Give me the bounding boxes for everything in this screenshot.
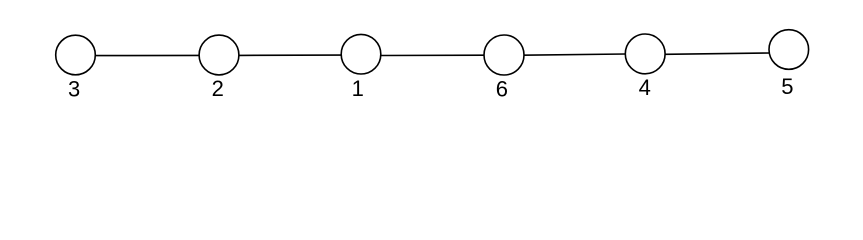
node 6 — [484, 35, 524, 75]
svg-text:3: 3 — [68, 76, 80, 101]
node 1 — [341, 34, 381, 74]
svg-text:4: 4 — [639, 75, 651, 100]
svg-text:2: 2 — [212, 76, 224, 101]
node 5 — [769, 30, 809, 70]
wire 4-5 — [665, 53, 770, 54]
wire 2-1 — [239, 54, 342, 56]
node 2 — [199, 35, 239, 75]
node 4 — [625, 34, 665, 74]
svg-text:6: 6 — [496, 77, 508, 102]
wire 3-2 — [96, 54, 199, 56]
wire 6-4 — [523, 54, 626, 55]
svg-text:5: 5 — [781, 74, 793, 99]
svg-text:1: 1 — [352, 76, 364, 101]
node 3 — [56, 35, 96, 75]
wire 1-6 — [381, 54, 484, 56]
